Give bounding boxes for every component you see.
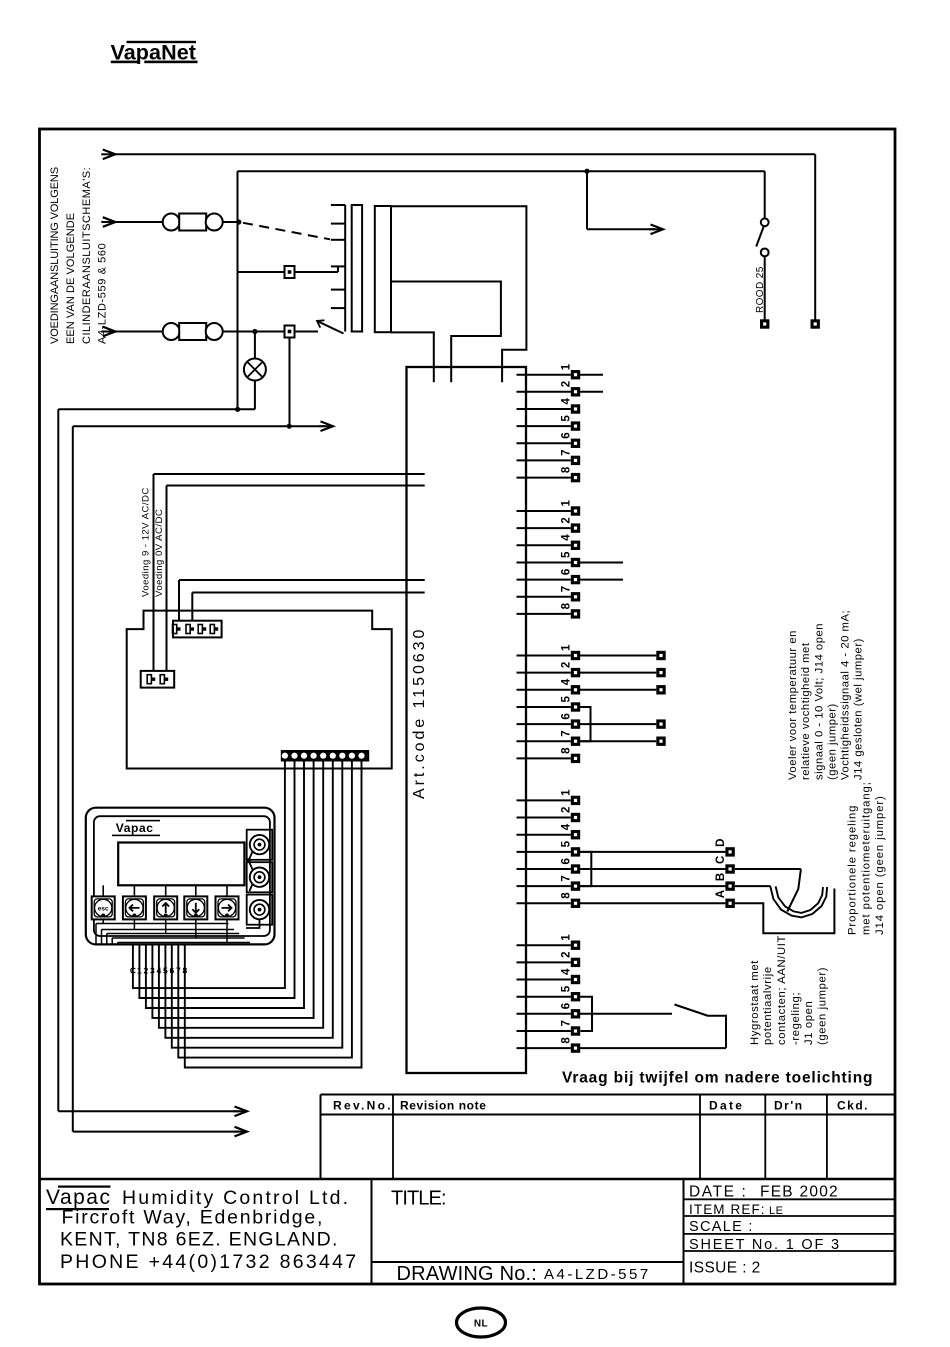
wire G1 pin1 stub	[580, 374, 603, 376]
svg-text:D: D	[715, 839, 727, 847]
svg-text:SHEET No. 1 OF 3: SHEET No. 1 OF 3	[689, 1237, 841, 1253]
U1 pin group 4	[517, 800, 571, 903]
svg-text:4: 4	[561, 398, 573, 405]
svg-text:PHONE +44(0)1732 863447: PHONE +44(0)1732 863447	[60, 1251, 358, 1273]
wire A to pot end	[735, 889, 835, 934]
wire F2 to selector	[223, 331, 319, 333]
svg-text:ITEM REF:: ITEM REF:	[689, 1202, 766, 1217]
wire G3 pin to sensor terminal	[580, 672, 656, 674]
wire drop to J3 pin1	[178, 580, 180, 621]
wire voeding 9-12V to U1	[154, 473, 425, 475]
svg-text:C: C	[715, 856, 727, 864]
junction R2	[287, 424, 292, 429]
arrow line B	[101, 327, 115, 337]
svg-text:Dr'n: Dr'n	[774, 1099, 804, 1113]
wire to switch S1	[764, 171, 766, 218]
svg-text:4: 4	[561, 823, 573, 830]
svg-text:8: 8	[561, 747, 573, 754]
svg-text:7: 7	[561, 586, 573, 592]
wire F1 to junction	[223, 221, 239, 223]
svg-text:1: 1	[561, 500, 573, 507]
wire S1 to terminal	[764, 256, 766, 319]
svg-text:relatieve vochtigheid met: relatieve vochtigheid met	[800, 642, 812, 780]
svg-text:A4-LZD-557: A4-LZD-557	[544, 1266, 651, 1283]
arrow L1	[101, 150, 115, 160]
U1 pin group 4 labels	[561, 789, 573, 899]
svg-text:7: 7	[561, 730, 573, 736]
VapaNet logo	[111, 41, 198, 65]
svg-text:6: 6	[561, 432, 573, 438]
PCB board outline	[127, 611, 392, 769]
wire to transformer mid tap	[238, 271, 339, 273]
svg-text:Ckd.: Ckd.	[837, 1099, 869, 1113]
terminal block X3	[285, 266, 295, 278]
company name block	[46, 1186, 358, 1274]
svg-text:1: 1	[561, 644, 573, 651]
svg-text:TITLE:: TITLE:	[391, 1188, 446, 1210]
svg-text:7: 7	[561, 1020, 573, 1026]
arrow R2 end	[233, 1127, 247, 1137]
svg-text:2: 2	[561, 517, 573, 523]
svg-text:1: 1	[561, 934, 573, 941]
svg-text:8: 8	[561, 892, 573, 899]
wire voeding 0V to U1	[167, 485, 425, 487]
junction A	[236, 219, 241, 224]
U1 pin group 5	[517, 945, 571, 1048]
switch S1 lower contact	[761, 249, 769, 257]
wire lamp to return	[254, 381, 256, 410]
wire PCB pin1 to U1	[179, 579, 425, 581]
terminal A	[725, 899, 734, 908]
title block	[40, 1179, 896, 1284]
display buttons	[92, 885, 239, 919]
wire drop to J3 pin2	[191, 593, 193, 622]
svg-text:4: 4	[561, 678, 573, 685]
svg-text:J14 gesloten (wel jumper): J14 gesloten (wel jumper)	[853, 638, 865, 780]
wire G2 pin5 stub	[580, 562, 623, 564]
U1 pin group 1 labels	[561, 363, 573, 473]
svg-text:2: 2	[561, 381, 573, 387]
svg-text:6: 6	[561, 1003, 573, 1009]
svg-text:(geen jumper): (geen jumper)	[827, 703, 839, 780]
wire G2 pin6 stub	[580, 579, 623, 581]
U1 pin group 2 terminals	[571, 506, 580, 618]
wire L2	[238, 170, 765, 172]
connector J4 2-pin	[141, 671, 175, 688]
display connectors	[247, 830, 273, 925]
wire R1 left drop	[57, 409, 59, 1111]
wire secondary bottom to U1	[391, 332, 434, 382]
terminal B	[725, 881, 734, 890]
junction L2	[584, 169, 589, 174]
svg-text:4: 4	[561, 534, 573, 541]
wire vertical x237	[237, 171, 239, 409]
svg-text:5: 5	[561, 551, 573, 558]
wire G3 pin to sensor terminal	[580, 655, 656, 657]
svg-text:Date: Date	[709, 1099, 744, 1113]
note: proportionele annotation	[847, 781, 887, 935]
wire B to pot end	[735, 885, 771, 887]
wire bundle display to J5	[133, 762, 362, 1068]
fuse F2	[163, 323, 223, 340]
svg-text:esc: esc	[98, 906, 109, 913]
junction R1	[235, 407, 240, 412]
sensor terminal	[656, 737, 665, 746]
svg-text:Voeler voor temperatuur en: Voeler voor temperatuur en	[787, 630, 799, 780]
wire G4 pin8 to A	[580, 902, 725, 904]
wire voeding drop 1	[153, 474, 155, 672]
svg-text:Hygrostaat met: Hygrostaat met	[749, 960, 761, 1045]
dashed tap selector link	[243, 223, 330, 240]
svg-text:Vochtigheidssignaal 4 - 20 mA;: Vochtigheidssignaal 4 - 20 mA;	[840, 610, 852, 780]
svg-text:potentiaalvrije: potentiaalvrije	[762, 966, 774, 1045]
wire C to pot wiper	[735, 868, 801, 870]
display internal wiring	[96, 919, 250, 944]
svg-text:LE: LE	[769, 1205, 783, 1217]
svg-text:1: 1	[561, 789, 573, 796]
lamp H1	[244, 359, 266, 381]
svg-text:Fircroft Way, Edenbridge,: Fircroft Way, Edenbridge,	[62, 1207, 325, 1229]
svg-text:SCALE :: SCALE :	[689, 1219, 754, 1235]
module U1 outline	[407, 367, 527, 1073]
svg-text:J1 open: J1 open	[803, 1001, 815, 1045]
svg-text:contacten; AAN/UIT: contacten; AAN/UIT	[776, 935, 788, 1045]
svg-text:NL: NL	[474, 1319, 488, 1330]
wire L1 drop to terminal	[814, 154, 816, 319]
revision table	[321, 1095, 896, 1180]
U1 pin group 4 terminals	[571, 796, 580, 908]
wire branch arrow line	[587, 228, 655, 230]
arrow line A	[101, 217, 115, 227]
wire X4 down to R2	[289, 338, 291, 427]
svg-text:Revision note: Revision note	[400, 1099, 486, 1113]
svg-text:Voeding 0V AC/DC: Voeding 0V AC/DC	[154, 509, 165, 597]
transformer T1 primary winding	[352, 205, 362, 332]
wire fuse line A	[113, 221, 163, 223]
arrow R2	[319, 421, 333, 431]
sensor terminal	[656, 719, 665, 728]
wire L2 branch down	[586, 171, 588, 229]
border frame	[40, 129, 896, 1284]
svg-text:2: 2	[561, 807, 573, 813]
wire secondary mid to U1	[391, 282, 501, 383]
svg-text:Rev.No.: Rev.No.	[333, 1099, 393, 1113]
svg-text:Vraag bij twijfel om nadere to: Vraag bij twijfel om nadere toelichting	[562, 1070, 873, 1087]
title block right column	[689, 1184, 841, 1277]
terminal D	[725, 847, 734, 856]
terminal C	[725, 864, 734, 873]
note: voeler annotation	[787, 610, 865, 780]
svg-text:FEB 2002: FEB 2002	[760, 1184, 839, 1201]
svg-text:CILINDERAANSLUITSCHEMA'S:: CILINDERAANSLUITSCHEMA'S:	[81, 167, 93, 344]
label C12345678	[130, 966, 188, 976]
svg-text:6: 6	[561, 713, 573, 719]
selector blade arrow	[317, 320, 344, 333]
transformer T1 secondary winding	[375, 206, 391, 332]
display LCD	[118, 843, 244, 886]
svg-text:(geen jumper): (geen jumper)	[817, 967, 829, 1045]
jumper J14 bracket G3	[580, 707, 591, 741]
svg-text:ISSUE : 2: ISSUE : 2	[689, 1260, 761, 1277]
wire PCB pin2 to U1	[192, 592, 424, 594]
svg-text:DATE :: DATE :	[689, 1184, 747, 1201]
NL stamp	[457, 1308, 506, 1337]
wire return R1	[58, 408, 255, 410]
note: hygrostaat annotation	[749, 935, 829, 1045]
jumper J1 bracket G5	[580, 997, 592, 1031]
transformer T1 primary taps	[331, 205, 345, 332]
svg-text:VOEDINGAANSLUITING VOLGENS: VOEDINGAANSLUITING VOLGENS	[49, 167, 61, 344]
wire R2 left drop	[72, 426, 74, 1131]
wire R2 bottom	[73, 1131, 239, 1133]
lamp H1 cross	[247, 362, 262, 377]
U1 pin group 3 labels	[561, 644, 573, 754]
potentiometer track	[770, 886, 827, 917]
U1 pin group 5 terminals	[571, 941, 580, 1053]
svg-text:Proportionele regeling: Proportionele regeling	[847, 805, 859, 935]
svg-text:EEN VAN DE VOLGENDE: EEN VAN DE VOLGENDE	[65, 213, 77, 344]
fuse F1	[163, 214, 223, 231]
svg-text:KENT, TN8 6EZ. ENGLAND.: KENT, TN8 6EZ. ENGLAND.	[60, 1229, 339, 1251]
svg-text:5: 5	[561, 696, 573, 703]
junction lamp tap	[252, 329, 257, 334]
wire G4 pin5 to D	[580, 851, 725, 853]
svg-text:Voeding 9 - 12V AC/DC: Voeding 9 - 12V AC/DC	[141, 487, 152, 597]
svg-text:5: 5	[561, 985, 573, 992]
svg-text:ROOD 25: ROOD 25	[755, 266, 766, 313]
wire G4 pin7 to B	[580, 885, 725, 887]
svg-text:5: 5	[561, 840, 573, 847]
wire secondary top to U1	[391, 206, 526, 382]
svg-text:2: 2	[561, 951, 573, 957]
U1 pin group 1 terminals	[571, 370, 580, 482]
switch S1 blade	[756, 226, 764, 246]
wire voeding drop 2	[166, 486, 168, 672]
wire G3 pin to sensor terminal	[580, 740, 656, 742]
hygrostat switch blade	[675, 1005, 709, 1017]
display unit outline	[86, 808, 275, 945]
wire G4 pin6 to C	[580, 868, 725, 870]
svg-text:8: 8	[561, 466, 573, 473]
display button glyphs	[98, 903, 232, 913]
switch S1 upper contact	[761, 218, 769, 226]
svg-text:7: 7	[561, 449, 573, 455]
U1 pin group 3 terminals	[571, 651, 580, 763]
display unit inner frame	[94, 816, 270, 936]
wire fuse line B	[113, 331, 163, 333]
drawing number	[397, 1263, 651, 1285]
svg-text:6: 6	[561, 569, 573, 575]
connector J5 9-pin	[281, 750, 369, 762]
svg-text:2: 2	[561, 662, 573, 668]
wire switch to pin8 line	[709, 1016, 727, 1048]
svg-text:B: B	[715, 873, 727, 881]
wire to lamp	[254, 332, 256, 359]
svg-text:met potentiometeruitgang;: met potentiometeruitgang;	[861, 781, 873, 935]
svg-text:8: 8	[561, 1037, 573, 1044]
terminal X2	[811, 319, 820, 328]
wire G5 pin8	[580, 1047, 726, 1049]
display connector wires	[246, 852, 260, 929]
U1 pin group 3	[517, 656, 571, 759]
svg-text:-regeling;: -regeling;	[790, 992, 802, 1045]
wire G3 pin to sensor terminal	[580, 723, 656, 725]
svg-text:A: A	[715, 890, 727, 898]
svg-text:J14 open (geen jumper): J14 open (geen jumper)	[874, 795, 886, 935]
note: voedingaansluiting text	[49, 167, 109, 344]
sensor terminal	[656, 685, 665, 694]
svg-text:8: 8	[561, 602, 573, 609]
wire L1 top supply	[113, 153, 815, 155]
pot wiper arm	[787, 869, 801, 912]
connector J3 4-pin	[173, 621, 222, 638]
svg-text:5: 5	[561, 415, 573, 422]
svg-text:Art.code 1150630: Art.code 1150630	[411, 627, 428, 799]
U1 pin group 5 labels	[561, 934, 573, 1044]
wire G1 pin2 stub	[580, 391, 603, 393]
U1 pin group 1	[517, 375, 571, 478]
svg-text:7: 7	[561, 875, 573, 881]
svg-text:Vapac: Vapac	[116, 821, 154, 835]
sensor terminal	[656, 668, 665, 677]
arrow R1	[233, 1107, 247, 1117]
sensor terminal	[656, 651, 665, 660]
wire tap notch	[337, 266, 339, 272]
U1 pin group 2 labels	[561, 500, 573, 610]
svg-text:4: 4	[561, 968, 573, 975]
jumper bracket G4	[580, 852, 591, 886]
wire return R2	[73, 425, 325, 427]
svg-text:6: 6	[561, 858, 573, 864]
svg-text:DRAWING No.:: DRAWING No.:	[397, 1263, 538, 1285]
arrow branch	[649, 225, 663, 235]
terminal X1	[760, 319, 769, 328]
display Vapac logo	[112, 820, 160, 836]
wire G5 pin6 to switch	[580, 1013, 672, 1015]
terminal block X4	[285, 326, 295, 338]
wire G3 pin to sensor terminal	[580, 689, 656, 691]
wire R1 bottom	[58, 1110, 239, 1112]
svg-text:1: 1	[561, 363, 573, 370]
U1 pin group 2	[517, 511, 571, 614]
svg-text:signaal 0 - 10 Volt; J14 open: signaal 0 - 10 Volt; J14 open	[814, 623, 826, 780]
